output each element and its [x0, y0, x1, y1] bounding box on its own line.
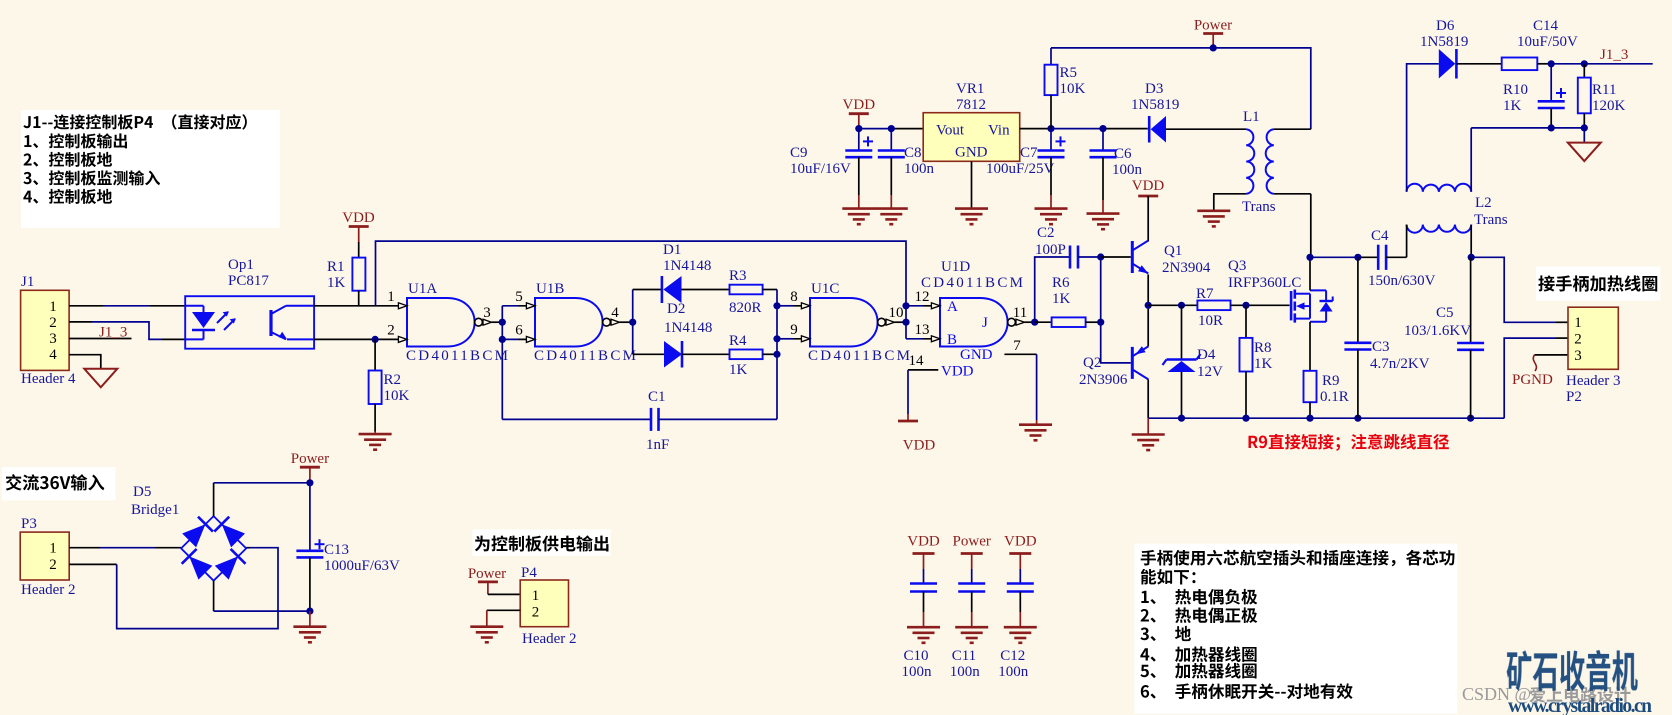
capacitor C9 10uF/16V	[790, 129, 873, 209]
wire P3.2 to bridge	[69, 548, 278, 629]
svg-text:1: 1	[49, 541, 57, 557]
svg-text:VDD: VDD	[907, 534, 940, 550]
wire bridge minus	[214, 581, 310, 611]
wire U1B out to D1 D2 branches	[620, 290, 665, 355]
svg-text:1K: 1K	[1254, 356, 1273, 372]
junction U1A out	[499, 319, 506, 343]
svg-text:C11: C11	[952, 648, 976, 664]
ground at rail	[1132, 418, 1165, 450]
svg-text:9: 9	[790, 322, 798, 338]
caption heater coil	[1536, 266, 1660, 300]
svg-text:B: B	[947, 332, 957, 348]
ground below VR1	[955, 208, 988, 225]
svg-text:Q1: Q1	[1164, 243, 1182, 259]
svg-text:103/1.6KV: 103/1.6KV	[1404, 323, 1471, 339]
svg-text:3: 3	[483, 305, 491, 321]
svg-text:U1D: U1D	[941, 259, 970, 275]
ground at U1D pin7	[1019, 425, 1052, 441]
svg-text:R5: R5	[1060, 65, 1078, 81]
svg-text:C4: C4	[1371, 228, 1389, 244]
resistor R5 10K	[1045, 48, 1086, 129]
svg-text:100n: 100n	[904, 161, 935, 177]
power Power at P4	[468, 566, 506, 594]
wire C2 to Q1 base	[1101, 256, 1131, 258]
junction U1D out node	[1031, 319, 1038, 326]
svg-text:Vin: Vin	[988, 123, 1010, 139]
wire emitters to R7	[1148, 304, 1197, 306]
wire U1C out to U1D inputs	[895, 306, 941, 339]
svg-text:1N5819: 1N5819	[1131, 97, 1179, 113]
resistor R9 0.1R	[1304, 322, 1349, 418]
diode D3 1N5819	[1131, 81, 1246, 143]
svg-text:C12: C12	[1000, 648, 1025, 664]
svg-text:C14: C14	[1533, 18, 1559, 34]
svg-text:C10: C10	[904, 648, 929, 664]
capacitor C12 100n	[998, 584, 1034, 681]
power Power at C11	[953, 534, 991, 584]
junctions on rail	[1178, 415, 1474, 422]
svg-text:Header 2: Header 2	[21, 582, 76, 598]
svg-text:100n: 100n	[950, 664, 981, 680]
diode D2 1N4148	[664, 301, 730, 368]
svg-text:U1B: U1B	[536, 281, 564, 297]
svg-text:10: 10	[889, 305, 904, 321]
svg-text:R4: R4	[729, 333, 747, 349]
power VDD at C10	[907, 534, 940, 584]
nand gate U1C CD4011BCM	[790, 281, 910, 364]
junction D6 output	[1548, 60, 1588, 67]
transistor Q2 2N3906	[1079, 305, 1148, 418]
svg-text:1K: 1K	[1052, 291, 1071, 307]
svg-text:2: 2	[1574, 332, 1582, 348]
svg-text:D3: D3	[1145, 81, 1163, 97]
svg-text:12V: 12V	[1197, 364, 1223, 380]
bridge rectifier D5 Bridge1	[131, 484, 246, 581]
svg-text:120K: 120K	[1592, 98, 1626, 114]
zener D4 12V	[1163, 302, 1224, 419]
junction Q1 base node	[1097, 253, 1104, 325]
svg-text:100P: 100P	[1035, 242, 1066, 258]
junction RC node	[773, 302, 780, 358]
wire rail to P2 pin2	[1504, 338, 1568, 418]
svg-text:C7: C7	[1020, 145, 1038, 161]
wire P4.2 to ground	[487, 610, 520, 626]
svg-text:10K: 10K	[384, 388, 410, 404]
svg-text:1N4148: 1N4148	[663, 258, 711, 274]
resistor R8 1K	[1240, 302, 1273, 419]
svg-text:1N4148: 1N4148	[664, 320, 712, 336]
svg-text:C2: C2	[1037, 225, 1055, 241]
diode D6 1N5819	[1420, 18, 1502, 79]
wire P2 pin3 PGND	[1533, 355, 1568, 371]
svg-text:P2: P2	[1566, 389, 1582, 405]
junction return	[1548, 124, 1588, 131]
capacitor C13 1000uF/63V	[296, 483, 400, 611]
connector P4 Header 2	[520, 565, 576, 647]
connector P2 Header 3	[1566, 307, 1621, 405]
svg-text:VDD: VDD	[843, 97, 876, 113]
U1D power pin 7 GND	[960, 338, 1037, 425]
note box J1 pin functions	[21, 110, 280, 228]
svg-text:C8: C8	[904, 145, 922, 161]
svg-text:D4: D4	[1197, 347, 1216, 363]
nand gate U1D CD4011BCM	[915, 259, 1028, 348]
wire RC node vertical	[777, 290, 810, 420]
svg-text:1: 1	[49, 299, 57, 315]
net label J1_3 right	[1600, 47, 1628, 63]
svg-text:10K: 10K	[1060, 81, 1086, 97]
svg-text:D5: D5	[133, 484, 151, 500]
wire Q3 drain	[1309, 257, 1311, 290]
ground below C13	[293, 611, 326, 642]
power VDD at R1	[342, 210, 375, 258]
svg-text:8: 8	[790, 289, 798, 305]
ground below C7	[1035, 209, 1068, 225]
svg-text:Power: Power	[953, 534, 991, 550]
svg-text:Header 2: Header 2	[522, 631, 577, 647]
power VDD at Q1 collector	[1132, 178, 1165, 242]
power VDD at C9	[843, 97, 876, 129]
svg-text:R9: R9	[1322, 373, 1340, 389]
svg-text:C9: C9	[790, 145, 808, 161]
net label PGND	[1512, 372, 1553, 388]
svg-text:100uF/25V: 100uF/25V	[986, 161, 1055, 177]
svg-text:PC817: PC817	[228, 273, 269, 289]
svg-text:3: 3	[1574, 348, 1582, 364]
caption AC 36V input	[2, 467, 116, 500]
wire opto emitter to U1A pin2	[314, 338, 398, 340]
nand gate U1B CD4011BCM	[515, 281, 636, 364]
svg-text:PGND: PGND	[1512, 372, 1553, 388]
svg-text:1N5819: 1N5819	[1420, 34, 1468, 50]
resistor R3 820R	[729, 268, 777, 316]
ground below C11	[955, 627, 988, 643]
wire opto collector to U1A pin1	[314, 305, 398, 307]
capacitor C5 103/1.6KV	[1404, 257, 1484, 418]
junction U1B out	[629, 319, 636, 326]
svg-text:P4: P4	[521, 565, 537, 581]
svg-text:1: 1	[1574, 315, 1582, 331]
svg-text:1nF: 1nF	[646, 437, 669, 453]
U1D power pin 14 VDD	[898, 353, 974, 454]
svg-text:Header 4: Header 4	[21, 371, 76, 387]
svg-text:7812: 7812	[956, 97, 986, 113]
svg-text:L1: L1	[1243, 109, 1260, 125]
resistor R7 10R	[1196, 286, 1290, 329]
svg-text:1K: 1K	[327, 275, 346, 291]
svg-text:A: A	[947, 299, 958, 315]
wire feedback from U1C output to U1A pin1	[376, 241, 907, 339]
svg-text:150n/630V: 150n/630V	[1368, 273, 1436, 289]
ground at rectifier return	[1568, 143, 1601, 162]
capacitor C1 1nF	[502, 389, 777, 453]
svg-text:4.7n/2KV: 4.7n/2KV	[1370, 356, 1430, 372]
resistor R10 1K	[1502, 58, 1552, 115]
junction C13 minus	[306, 608, 313, 615]
svg-text:1: 1	[387, 289, 395, 305]
svg-text:Q2: Q2	[1083, 355, 1101, 371]
svg-text:2: 2	[49, 315, 57, 331]
svg-text:2: 2	[532, 605, 540, 621]
svg-text:GND: GND	[960, 347, 993, 363]
resistor R2 10K	[369, 339, 410, 431]
svg-text:R7: R7	[1196, 286, 1214, 302]
svg-text:1000uF/63V: 1000uF/63V	[324, 558, 400, 574]
ground below L1	[1197, 211, 1230, 227]
watermark crystalradio logo	[1507, 650, 1653, 715]
connector J1 Header 4	[21, 274, 76, 387]
svg-text:5: 5	[515, 289, 523, 305]
capacitor C4 150n/630V	[1368, 228, 1436, 289]
svg-text:J1_3: J1_3	[99, 325, 127, 341]
svg-text:10uF/16V: 10uF/16V	[790, 161, 851, 177]
svg-text:www.crystalradio.cn: www.crystalradio.cn	[1508, 696, 1652, 715]
svg-text:IRFP360LC: IRFP360LC	[1228, 275, 1301, 291]
svg-text:0.1R: 0.1R	[1320, 389, 1349, 405]
wire J1.1 to opto anode	[69, 305, 185, 307]
ground below C8	[875, 209, 908, 225]
svg-text:GND: GND	[955, 145, 988, 161]
svg-text:Power: Power	[1194, 18, 1232, 34]
wire J1.2 to opto cathode	[69, 322, 185, 340]
capacitor C3 4.7n/2KV	[1344, 257, 1429, 418]
wire U1A out to U1B in	[492, 306, 536, 420]
svg-text:R8: R8	[1254, 340, 1272, 356]
svg-text:R10: R10	[1503, 82, 1528, 98]
svg-text:D1: D1	[663, 242, 681, 258]
svg-text:J: J	[982, 315, 988, 331]
junction emitters node	[1145, 302, 1152, 309]
svg-text:13: 13	[915, 322, 930, 338]
power Power at C13	[291, 451, 329, 483]
connector P3 Header 2	[20, 516, 75, 598]
capacitor C14 10uF/50V	[1517, 18, 1578, 128]
wire VDD rail to VR1	[859, 128, 923, 130]
note handle connector pin functions	[1134, 544, 1457, 714]
svg-text:R2: R2	[384, 372, 402, 388]
svg-text:U1A: U1A	[408, 281, 437, 297]
optocoupler Op1 PC817	[185, 257, 314, 349]
ground below P4	[470, 627, 503, 643]
wire bridge plus to Power	[214, 483, 310, 516]
svg-text:1K: 1K	[1503, 98, 1522, 114]
power rail top wire	[1051, 48, 1311, 129]
net label J1_3	[99, 325, 127, 341]
svg-text:VDD: VDD	[1004, 534, 1037, 550]
svg-text:10R: 10R	[1198, 313, 1223, 329]
power VDD at C12	[1004, 534, 1037, 584]
svg-text:3: 3	[49, 331, 57, 347]
watermark CSDN	[1462, 684, 1630, 704]
svg-text:Power: Power	[468, 566, 506, 582]
svg-text:100n: 100n	[998, 664, 1029, 680]
svg-text:C5: C5	[1436, 305, 1454, 321]
resistor R6 1K	[1035, 275, 1101, 327]
ground below C12	[1004, 627, 1037, 643]
mosfet Q3 IRFP360LC	[1228, 258, 1333, 323]
svg-text:1: 1	[532, 588, 540, 604]
svg-text:VDD: VDD	[1132, 178, 1165, 194]
svg-text:P3: P3	[21, 516, 37, 532]
svg-text:C1: C1	[648, 389, 666, 405]
wire J1_3 output	[1551, 63, 1653, 65]
svg-text:10uF/50V: 10uF/50V	[1517, 34, 1578, 50]
transformer L1	[1214, 109, 1311, 257]
svg-text:14: 14	[909, 353, 925, 369]
capacitor C6 100n	[1090, 129, 1143, 214]
svg-text:Vout: Vout	[936, 123, 965, 139]
svg-text:C13: C13	[324, 542, 349, 558]
wire Q bases vertical	[1101, 257, 1131, 363]
wire drain to P2 pin1	[1471, 257, 1568, 322]
wire rectifier return	[1471, 128, 1584, 143]
note R9 jumper	[1249, 434, 1449, 451]
diode D1 1N4148	[662, 242, 730, 303]
svg-text:R6: R6	[1052, 275, 1070, 291]
svg-text:VR1: VR1	[956, 81, 984, 97]
svg-text:12: 12	[915, 289, 930, 305]
junction Power	[1210, 44, 1217, 51]
capacitor C10 100n	[902, 584, 938, 681]
svg-text:820R: 820R	[729, 300, 762, 316]
svg-text:C3: C3	[1372, 339, 1390, 355]
wire VR1 Vin node	[1020, 128, 1148, 130]
capacitor C2 100P	[1035, 225, 1101, 322]
svg-text:Trans: Trans	[1242, 199, 1276, 215]
wire drain node row	[1310, 256, 1378, 258]
wire J1.4 to ground	[69, 355, 101, 369]
capacitor C11 100n	[950, 584, 986, 681]
svg-text:D6: D6	[1436, 18, 1455, 34]
junction L2 out	[1468, 254, 1475, 261]
svg-text:D2: D2	[667, 301, 685, 317]
svg-text:L2: L2	[1475, 195, 1492, 211]
svg-text:C6: C6	[1114, 146, 1132, 162]
transistor Q1 2N3904	[1132, 241, 1211, 306]
wire U1D out	[1025, 321, 1035, 323]
svg-text:VDD: VDD	[941, 364, 974, 380]
junction U1C out	[902, 302, 909, 326]
ground below C6	[1087, 214, 1120, 230]
wire Power to P4.1	[488, 593, 520, 595]
svg-text:J1: J1	[21, 274, 34, 290]
svg-text:6: 6	[515, 323, 523, 339]
svg-text:2: 2	[49, 557, 57, 573]
junction drain node	[1306, 254, 1361, 261]
regulator VR1 7812	[923, 81, 1020, 208]
ground below R2	[359, 432, 392, 450]
svg-text:U1C: U1C	[811, 281, 839, 297]
svg-text:11: 11	[1013, 305, 1027, 321]
wire P3.1 to bridge	[69, 547, 181, 549]
svg-text:100n: 100n	[1112, 162, 1143, 178]
svg-text:100n: 100n	[902, 664, 933, 680]
svg-text:R1: R1	[327, 259, 345, 275]
svg-text:VDD: VDD	[903, 438, 936, 454]
svg-text:4: 4	[611, 305, 619, 321]
svg-text:4: 4	[49, 347, 57, 363]
transformer L2	[1407, 64, 1508, 257]
svg-text:7: 7	[1013, 338, 1021, 354]
ground below C9	[842, 209, 875, 225]
svg-text:2N3906: 2N3906	[1079, 372, 1128, 388]
power Power at top	[1194, 18, 1232, 48]
svg-text:Trans: Trans	[1474, 212, 1508, 228]
svg-text:R3: R3	[729, 268, 747, 284]
resistor R1 1K	[327, 258, 365, 306]
svg-text:Bridge1: Bridge1	[131, 502, 179, 518]
junction Power C13	[306, 479, 313, 486]
capacitor C7 100uF/25V	[986, 129, 1066, 209]
resistor R11 120K	[1578, 64, 1626, 128]
svg-text:2N3904: 2N3904	[1162, 260, 1211, 276]
ground at J1.4	[84, 369, 117, 388]
resistor R4 1K	[729, 333, 777, 378]
svg-text:R11: R11	[1592, 82, 1616, 98]
junction at R2 top	[372, 336, 379, 343]
svg-text:Op1: Op1	[228, 257, 254, 273]
svg-text:J1_3: J1_3	[1600, 47, 1628, 63]
junction VDD rail	[855, 125, 895, 132]
junction Vin node	[1047, 125, 1106, 132]
wire switch ground rail	[1148, 417, 1504, 419]
nand gate U1A CD4011BCM	[387, 281, 508, 364]
capacitor C8 100n	[878, 129, 935, 209]
svg-text:Header 3: Header 3	[1566, 373, 1621, 389]
ground below C10	[907, 627, 940, 643]
svg-text:Q3: Q3	[1228, 258, 1246, 274]
svg-text:2: 2	[387, 323, 395, 339]
caption control board power output	[472, 529, 610, 556]
svg-text:Power: Power	[291, 451, 329, 467]
svg-text:VDD: VDD	[342, 210, 375, 226]
svg-text:1K: 1K	[729, 362, 748, 378]
wire J1.3 stub net J1_3	[69, 338, 131, 340]
